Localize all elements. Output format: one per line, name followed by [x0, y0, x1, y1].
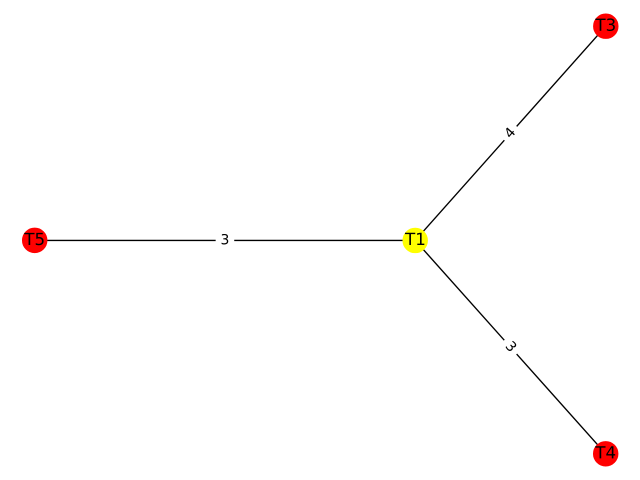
node label T4	[595, 446, 615, 458]
4	[503, 126, 515, 138]
node label T1	[405, 233, 424, 245]
3	[505, 340, 517, 352]
wire edge T1-T3	[415, 26, 606, 240]
wire edge T1-T4	[415, 240, 606, 453]
node T4 (red)	[594, 442, 618, 466]
edge label 3 (T1-T5)	[216, 230, 233, 252]
edge label 3 (T1-T4)	[498, 335, 523, 359]
edge label 4 (T1-T3)	[498, 121, 523, 145]
3	[222, 234, 229, 245]
wire edge T1-T5	[35, 239, 416, 241]
node T3 (red)	[594, 14, 618, 38]
T3	[595, 18, 614, 31]
T5	[24, 233, 43, 245]
node label T5	[24, 233, 43, 245]
node T1 (yellow)	[403, 228, 427, 252]
node label T3	[595, 18, 614, 31]
node T5 (red)	[23, 228, 47, 252]
T1	[405, 233, 424, 245]
T4	[595, 446, 615, 458]
